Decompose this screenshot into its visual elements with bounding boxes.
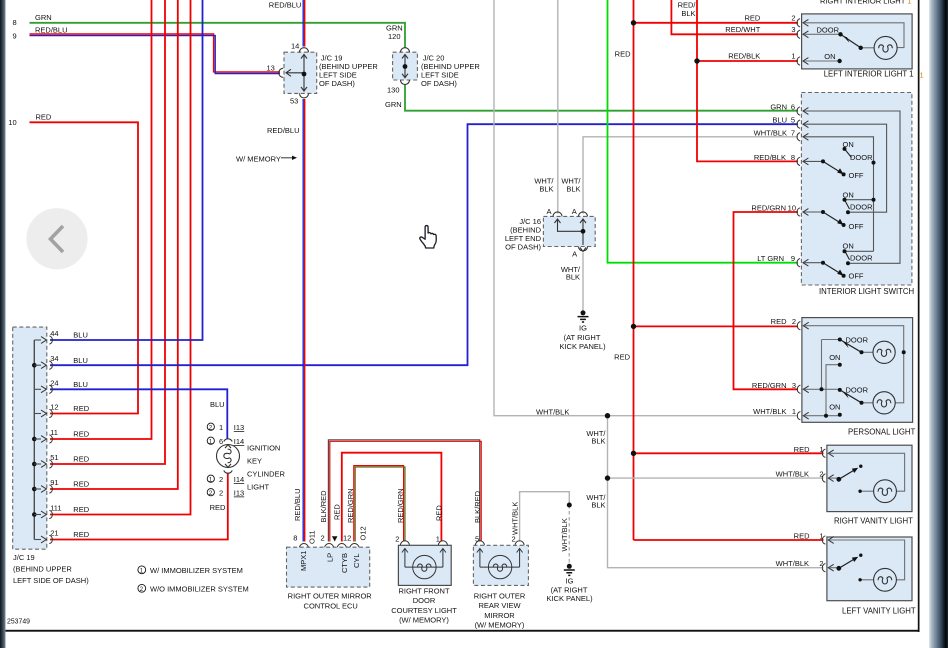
svg-text:53: 53: [290, 97, 298, 106]
svg-text:1: 1: [791, 51, 795, 60]
wire RED to personal light pin 2: [634, 325, 799, 327]
svg-text:(AT RIGHT: (AT RIGHT: [564, 333, 601, 342]
wire GRN J/C20 pin 130 to switch pin 6: [405, 85, 798, 111]
svg-text:I13: I13: [234, 423, 244, 432]
wire WHT/BLK vertical to personal light pin 1: [494, 0, 798, 416]
svg-text:CYLINDER: CYLINDER: [247, 470, 286, 479]
svg-text:111: 111: [50, 504, 61, 513]
diagram frame bottom border: [6, 630, 920, 632]
svg-text:1: 1: [819, 532, 823, 541]
svg-text:LEFT INTERIOR LIGHT 1: LEFT INTERIOR LIGHT 1: [824, 70, 914, 79]
node RED trunk top junction: [631, 20, 636, 25]
wire RED/GRN switch pin 10 to personal light pin 3: [734, 212, 799, 389]
left vanity switch arm: [839, 559, 855, 569]
back nav button circle: [26, 208, 87, 269]
right outer rear view mirror box: [473, 545, 528, 585]
J/C19 pin 14 arc: [300, 48, 309, 53]
J/C20 pin 120 arc: [401, 48, 410, 53]
svg-text:KICK PANEL): KICK PANEL): [559, 342, 606, 351]
wire WHT/BLK dashed segment to IG ground: [568, 505, 570, 566]
wire BLK/RED mirror ECU pin 2 to rear view mirror pin 5 black strand: [328, 440, 479, 542]
svg-text:2: 2: [819, 470, 823, 479]
ECU pin 8 MPX1 arc: [299, 544, 308, 548]
legend immobilizer: [138, 566, 146, 574]
svg-text:21: 21: [50, 529, 58, 538]
wire RED/GRN mirror ECU pin O12 red strand to courtesy light pin 2: [354, 466, 404, 542]
personal light ON A branch: [826, 365, 840, 416]
svg-text:WHT/BLK: WHT/BLK: [776, 470, 809, 479]
IG ground at right kick panel upper: [578, 310, 589, 322]
svg-text:OFF: OFF: [849, 222, 864, 231]
svg-text:9: 9: [13, 31, 17, 40]
svg-text:MIRROR: MIRROR: [484, 611, 515, 620]
svg-text:PERSONAL LIGHT: PERSONAL LIGHT: [848, 428, 916, 437]
svg-text:2: 2: [791, 13, 795, 22]
svg-text:OFF: OFF: [849, 272, 864, 281]
node WHT/BLK personal light junction: [605, 413, 610, 418]
wire RED/WHT to left interior light pin 3: [671, 0, 798, 34]
switch unit 3: [821, 249, 850, 277]
personal light lamp A: [873, 341, 895, 363]
left interior light switch arm: [841, 34, 861, 48]
svg-text:3: 3: [791, 25, 795, 34]
svg-text:CTYB: CTYB: [340, 553, 349, 573]
svg-text:BLU: BLU: [73, 331, 88, 340]
J/C19 pin 53 arrow: [301, 87, 307, 91]
svg-text:BLU: BLU: [73, 380, 88, 389]
switch pin 8 internal wire: [804, 160, 823, 162]
courtesy light bulb: [413, 555, 436, 578]
svg-text:OF DASH): OF DASH): [421, 79, 457, 88]
svg-text:RED: RED: [615, 50, 631, 59]
svg-text:BLK/RED: BLK/RED: [319, 490, 328, 523]
svg-text:1: 1: [792, 407, 796, 416]
svg-text:2: 2: [321, 534, 325, 543]
svg-text:RED/BLU: RED/BLU: [269, 1, 302, 10]
svg-text:DOOR: DOOR: [850, 253, 873, 262]
svg-text:2: 2: [209, 491, 213, 497]
left vanity pin 1 connector: [822, 536, 833, 544]
left vanity lamp: [874, 568, 897, 591]
switch unit 2: [821, 198, 876, 227]
wire RED/BLU blue strand J/C19 pin 53 to mirror ECU pin 8: [302, 99, 304, 542]
svg-text:RIGHT OUTER: RIGHT OUTER: [474, 591, 526, 600]
mirror pin arrows: [477, 549, 483, 568]
svg-text:RED: RED: [73, 530, 89, 539]
J/C19 lower pins: [34, 340, 41, 540]
personal light unit A arm: [840, 340, 862, 353]
left interior light pin 2 connector: [797, 19, 808, 27]
svg-text:8: 8: [293, 534, 297, 543]
node RED/BLK junction: [694, 58, 699, 63]
label ignition pin rows: [207, 423, 214, 430]
svg-text:WHT/BLK: WHT/BLK: [536, 408, 569, 417]
svg-text:GRN: GRN: [35, 13, 52, 22]
svg-text:10: 10: [8, 118, 16, 127]
svg-text:O12: O12: [358, 526, 367, 540]
svg-text:3: 3: [792, 381, 796, 390]
svg-text:I13: I13: [234, 489, 244, 498]
svg-text:5: 5: [475, 535, 479, 544]
svg-text:RED/WHT: RED/WHT: [725, 25, 760, 34]
wire RED to left interior light pin 2: [634, 22, 799, 24]
svg-text:12: 12: [343, 534, 351, 543]
personal light unit B arm: [840, 390, 862, 403]
wire 8 GRN to J/C20 pin 120: [30, 23, 406, 48]
svg-text:LEFT VANITY LIGHT: LEFT VANITY LIGHT: [842, 607, 916, 616]
wire 11 RED: [50, 0, 152, 439]
wire RED/BLK to left interior light pin 1: [697, 60, 798, 62]
left interior light lamp: [874, 36, 897, 59]
node RED to right vanity: [631, 451, 636, 456]
left vanity pin 2 internal wire: [829, 567, 839, 569]
left vanity pin 2 connector: [822, 564, 833, 572]
svg-text:BLK/RED: BLK/RED: [473, 490, 482, 523]
right vanity pin 2 internal wire: [829, 477, 839, 479]
svg-text:GRN: GRN: [385, 100, 402, 109]
svg-text:LIGHT: LIGHT: [247, 483, 270, 492]
svg-text:GRN: GRN: [770, 103, 787, 112]
svg-text:W/O IMMOBILIZER SYSTEM: W/O IMMOBILIZER SYSTEM: [150, 585, 249, 594]
svg-text:OF DASH): OF DASH): [505, 243, 541, 252]
left vanity lamp stub: [860, 579, 874, 581]
svg-text:DOOR: DOOR: [846, 386, 869, 395]
svg-text:BLK: BLK: [539, 185, 553, 194]
svg-text:RED: RED: [771, 317, 787, 326]
svg-text:REAR VIEW: REAR VIEW: [478, 601, 521, 610]
wire WHT/BLK branch to right vanity light pin 2: [608, 477, 824, 479]
switch pin 9 connector: [797, 259, 808, 267]
wire WHT/BLK to right vanity light pin 2: [608, 416, 824, 568]
wire WHT/BLK vertical to J/C16 pin A left: [557, 0, 559, 214]
ECU floating pin arrow: [332, 536, 338, 541]
svg-text:CONTROL ECU: CONTROL ECU: [304, 602, 358, 611]
svg-text:RED: RED: [333, 504, 342, 520]
courtesy light pin arrows: [402, 549, 408, 568]
svg-text:2: 2: [395, 535, 399, 544]
svg-text:RIGHT FRONT: RIGHT FRONT: [398, 586, 450, 595]
right vanity lamp: [874, 480, 897, 503]
courtesy light internal wires: [405, 566, 443, 568]
svg-text:LEFT SIDE OF DASH): LEFT SIDE OF DASH): [13, 576, 89, 585]
wire 51 RED: [50, 0, 165, 464]
svg-text:BLU: BLU: [772, 116, 787, 125]
J/C19 center junction dot: [302, 72, 307, 77]
J/C19 pin 13 arrow: [286, 69, 304, 76]
svg-text:BLU: BLU: [210, 400, 225, 409]
svg-text:2: 2: [209, 425, 213, 431]
wire BLK/RED red strand: [330, 441, 481, 541]
interior light switch box: [801, 93, 912, 286]
J/C19 pin 13 arc: [279, 68, 284, 77]
W/ MEMORY arrow: [281, 157, 293, 159]
svg-text:RED/GRN: RED/GRN: [752, 381, 787, 390]
svg-text:2: 2: [819, 559, 823, 568]
svg-text:MPX1: MPX1: [299, 551, 308, 571]
J/C16 internal wiring: [558, 219, 584, 246]
svg-text:O11: O11: [308, 530, 317, 544]
svg-text:RED: RED: [210, 503, 226, 512]
svg-text:RED/BLK: RED/BLK: [754, 153, 786, 162]
personal light lamp stubs: [862, 352, 874, 403]
J/C16 pin A right arc: [579, 212, 588, 217]
wire 10 RED to J/C19 pin 12: [30, 122, 139, 413]
svg-text:WHT/BLK: WHT/BLK: [560, 518, 569, 551]
mirror pin 5 arc: [475, 541, 484, 546]
wire WHT/BLK rear view mirror pin 2 to IG ground: [520, 492, 570, 542]
svg-text:IG: IG: [566, 577, 574, 586]
svg-text:RED: RED: [794, 445, 810, 454]
ECU pin 2 LP arc: [325, 544, 334, 548]
mirror pin 2 arc: [515, 541, 524, 546]
svg-text:7: 7: [791, 128, 795, 137]
svg-text:14: 14: [291, 42, 299, 51]
wire 34 BLU to switch pin 5: [50, 124, 798, 365]
svg-text:RED: RED: [73, 404, 89, 413]
junction connector J/C 20 box: [393, 52, 418, 80]
wire 24 BLU to ignition key cylinder light: [50, 389, 227, 439]
junction connector J/C 19 upper box: [284, 52, 317, 93]
svg-text:RED/BLK: RED/BLK: [728, 51, 760, 60]
J/C20 center junction dot: [403, 64, 408, 69]
svg-text:IGNITION: IGNITION: [247, 444, 280, 453]
wire RED/BLU blue strand top to J/C19 pin 14: [302, 0, 304, 47]
svg-text:44: 44: [50, 329, 58, 338]
svg-text:RIGHT INTERIOR LIGHT 1: RIGHT INTERIOR LIGHT 1: [820, 0, 911, 5]
svg-text:INTERIOR LIGHT SWITCH: INTERIOR LIGHT SWITCH: [819, 287, 914, 296]
wire 21 RED to ignition key cylinder light: [50, 473, 228, 539]
svg-text:RIGHT OUTER MIRROR: RIGHT OUTER MIRROR: [288, 592, 373, 601]
svg-text:91: 91: [50, 478, 58, 487]
svg-text:W/ MEMORY: W/ MEMORY: [236, 155, 281, 164]
svg-text:A: A: [546, 207, 551, 216]
wire 111 RED: [50, 0, 191, 515]
svg-text:RED: RED: [614, 353, 630, 362]
svg-text:253749: 253749: [7, 619, 30, 626]
wire LT GRN to switch pin 9: [608, 0, 799, 263]
svg-text:BLK: BLK: [591, 437, 605, 446]
ECU pin O12 CYL arc: [350, 544, 359, 548]
svg-text:DOOR: DOOR: [850, 202, 873, 211]
right vanity pin 2 connector: [822, 474, 833, 482]
svg-text:BLK: BLK: [566, 185, 580, 194]
wire WHT/BLK switch pin 7 to J/C16 pin A right: [583, 137, 798, 214]
switch pin 5 connector: [797, 120, 808, 128]
wire 9 RED/BLU red strand: [30, 34, 281, 72]
svg-text:RED: RED: [73, 480, 89, 489]
svg-text:RED: RED: [73, 505, 89, 514]
right vanity switch arm: [839, 470, 855, 480]
svg-text:J/C 19: J/C 19: [13, 553, 35, 562]
mouse hand cursor: [420, 226, 436, 248]
personal light box: [802, 318, 913, 423]
left vanity contact dots: [836, 566, 841, 571]
svg-text:RED: RED: [73, 430, 89, 439]
svg-text:OFF: OFF: [849, 171, 864, 180]
svg-text:RED: RED: [744, 13, 760, 22]
left interior light contact dots: [838, 32, 842, 36]
J/C19 pin 53 arc: [300, 93, 309, 98]
left interior light pin 1 connector: [797, 57, 808, 65]
svg-text:1: 1: [209, 477, 213, 483]
svg-text:RED: RED: [434, 505, 443, 521]
svg-text:BLK: BLK: [591, 501, 605, 510]
svg-text:2: 2: [792, 317, 796, 326]
junction connector J/C 19 lower box: [13, 327, 47, 549]
node RED to personal light: [631, 324, 636, 329]
J/C20 pin 120 arrow: [402, 55, 408, 59]
J/C19 internal bus: [33, 340, 35, 540]
J/C16 bottom exit arrow: [580, 248, 586, 252]
switch unit 3 ON tap: [845, 250, 874, 252]
svg-text:9: 9: [791, 254, 795, 263]
svg-text:8: 8: [13, 18, 17, 27]
IG ground at right kick panel lower: [564, 503, 575, 576]
svg-text:13: 13: [267, 64, 275, 73]
svg-text:51: 51: [50, 453, 58, 462]
right vanity contact dots: [836, 477, 841, 482]
wire RED/BLK vertical trunk: [697, 0, 798, 161]
svg-text:CYL: CYL: [352, 553, 361, 568]
courtesy light pin 1 arc: [438, 541, 447, 546]
svg-text:I14: I14: [234, 437, 244, 446]
svg-text:DOOR: DOOR: [846, 336, 869, 345]
junction connector J/C 16 box: [543, 216, 595, 246]
switch pin 10 internal wire: [804, 211, 823, 213]
wire RED mirror ECU pin 12 to courtesy light pin 1: [342, 453, 442, 542]
svg-text:8: 8: [791, 153, 795, 162]
personal light pin 2 connector: [797, 322, 808, 330]
J/C19 internal bus line: [303, 54, 305, 92]
J/C16 pin A left arrow: [555, 219, 561, 223]
svg-text:24: 24: [50, 378, 58, 387]
svg-text:DOOR: DOOR: [413, 596, 436, 605]
svg-text:12: 12: [50, 403, 58, 412]
mirror internal wires: [480, 566, 520, 568]
svg-text:ON: ON: [829, 353, 840, 362]
J/C16 junction dot: [581, 229, 586, 234]
svg-text:ON: ON: [843, 241, 854, 250]
svg-text:RED/GRN: RED/GRN: [346, 488, 355, 523]
svg-text:RED/BLU: RED/BLU: [35, 26, 68, 35]
left interior light pin 3 connector: [797, 30, 808, 38]
right vanity pin 1 connector: [822, 449, 833, 457]
switch pin 7 internal wire through unit 1 door: [804, 137, 874, 252]
svg-text:10: 10: [788, 204, 796, 213]
left interior light pin 3 internal wire: [804, 33, 841, 35]
diagram frame right border: [918, 0, 920, 632]
back nav chevron: [51, 226, 64, 252]
svg-text:RED: RED: [36, 112, 52, 121]
right scrollbar: [929, 0, 948, 648]
right outer mirror control ECU box: [287, 547, 370, 587]
svg-text:RED: RED: [794, 532, 810, 541]
svg-text:ON: ON: [824, 52, 835, 61]
svg-text:WHT/BLK: WHT/BLK: [753, 407, 786, 416]
wire RED vertical trunk: [633, 0, 635, 540]
switch pin 9 internal wire: [804, 262, 823, 264]
J/C16 pin A right arrow: [580, 219, 586, 223]
svg-text:RED/GRN: RED/GRN: [751, 204, 786, 213]
personal light pin 2 internal wire: [804, 326, 903, 403]
left vanity pin 1 internal wire: [829, 540, 904, 580]
svg-text:IG: IG: [579, 324, 587, 333]
svg-text:I14: I14: [234, 475, 244, 484]
svg-text:2: 2: [219, 475, 223, 484]
personal light pin 3 connector: [797, 385, 808, 393]
switch unit 2 ON tap: [845, 199, 874, 201]
switch pin 10 connector: [797, 208, 808, 216]
J/C16 pin A bottom arc: [579, 247, 588, 252]
left interior light pin 2 internal wire: [804, 23, 904, 48]
left interior light lamp terminal stub: [861, 47, 874, 49]
svg-text:WHT/BLK: WHT/BLK: [776, 559, 809, 568]
switch pin 8 connector: [797, 157, 808, 165]
wire RED/GRN green strand: [355, 467, 405, 542]
svg-text:DOOR: DOOR: [850, 153, 873, 162]
svg-text:A: A: [572, 249, 577, 258]
left interior light pin 1 internal wire: [804, 60, 840, 62]
mirror courtesy bulb: [488, 555, 511, 578]
svg-text:RED/BLU: RED/BLU: [293, 488, 302, 521]
svg-text:1: 1: [209, 439, 213, 445]
J/C19 pin 14 arrow: [301, 55, 307, 59]
courtesy light pin 2 arc: [400, 541, 409, 546]
svg-text:34: 34: [50, 354, 58, 363]
svg-text:COURTESY LIGHT: COURTESY LIGHT: [391, 606, 457, 615]
personal light lamp B: [873, 392, 895, 414]
right front door courtesy light box: [398, 545, 451, 585]
svg-text:1: 1: [920, 71, 924, 80]
svg-text:2: 2: [219, 489, 223, 498]
svg-text:KEY: KEY: [247, 457, 262, 466]
svg-text:RIGHT VANITY LIGHT: RIGHT VANITY LIGHT: [834, 517, 913, 526]
svg-text:1: 1: [819, 445, 823, 454]
J/C20 internal bus line: [404, 54, 406, 78]
svg-text:130: 130: [387, 86, 400, 95]
wire RED to right vanity light pin 1: [634, 452, 824, 454]
wire 44 BLU: [50, 0, 203, 340]
personal light left bus: [822, 340, 840, 390]
svg-text:ON: ON: [843, 191, 854, 200]
J/C20 pin 130 arc: [401, 80, 410, 85]
svg-text:BLU: BLU: [73, 356, 88, 365]
svg-text:RED/GRN: RED/GRN: [396, 488, 405, 523]
ignition key cylinder light bulb: [217, 445, 240, 468]
svg-text:120: 120: [388, 32, 401, 41]
svg-text:1: 1: [436, 535, 440, 544]
left vanity light box: [827, 537, 912, 601]
svg-text:BLK: BLK: [681, 9, 695, 18]
svg-text:(W/ MEMORY): (W/ MEMORY): [475, 621, 525, 630]
right vanity light box: [827, 445, 912, 511]
svg-text:ON: ON: [829, 402, 840, 411]
svg-text:5: 5: [791, 116, 795, 125]
svg-text:RED/BLU: RED/BLU: [267, 126, 300, 135]
wire 91 RED: [50, 0, 178, 489]
svg-text:6: 6: [791, 103, 795, 112]
personal light pin 1 connector: [797, 412, 808, 420]
personal light pin 3 internal wire: [804, 388, 840, 390]
wire junction dots: [605, 20, 700, 481]
personal light contact dots: [820, 338, 906, 418]
svg-text:DOOR: DOOR: [817, 25, 840, 34]
left interior light 1 box: [802, 14, 913, 69]
svg-text:WHT/BLK: WHT/BLK: [754, 128, 787, 137]
wire 9 RED/BLU blue strand: [30, 36, 281, 74]
svg-text:RED: RED: [73, 455, 89, 464]
node WHT/BLK right vanity junction: [605, 475, 610, 480]
